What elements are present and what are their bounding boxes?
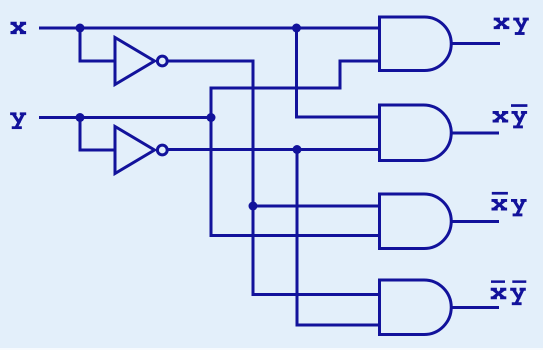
- junction dot on y line at riser: [207, 113, 216, 122]
- wire: x branch to NOT1: [80, 28, 114, 61]
- junction dot on x' line at AND3 branch: [249, 202, 258, 211]
- wire: AND3 output: [451, 220, 499, 223]
- wire: NOT1 output x' down to AND4 input 1: [169, 61, 379, 295]
- inverter NOT1 for x: [115, 38, 155, 85]
- wire: AND1 output: [451, 42, 500, 45]
- junction dot on y line at NOT2 branch: [76, 113, 85, 122]
- AND gate 4 (x' y'): [380, 280, 452, 335]
- wire: y riser up to AND1 input 2 and down to AND3 input 2: [211, 61, 380, 236]
- junction dot on x line at NOT1 branch: [76, 24, 85, 33]
- wire: AND4 output: [451, 306, 499, 309]
- label: input y: [10, 114, 26, 128]
- label: output x ybar: [493, 104, 528, 127]
- wire: NOT2 output y' to AND2 input 2: [169, 148, 380, 151]
- AND gate 3 (x' y): [380, 194, 452, 249]
- label: output xy: [494, 19, 529, 33]
- label: output xbar ybar: [491, 280, 527, 303]
- label: output xbar y: [492, 192, 527, 215]
- wire: x' branch to AND3 input 1: [253, 205, 380, 208]
- wire: y branch to NOT2: [80, 118, 114, 151]
- wire: x input line: [39, 27, 380, 30]
- AND gate 2 (x y'): [380, 105, 452, 161]
- wire: y' branch down to AND4 input 2: [297, 150, 378, 326]
- AND gate 1 (xy): [380, 17, 452, 71]
- label: input x: [11, 23, 27, 32]
- wire: x branch down to AND2 input 1: [297, 28, 380, 117]
- inverter NOT2 for y: [115, 127, 155, 174]
- wire: y input line: [39, 116, 211, 119]
- wire: AND2 output: [451, 132, 499, 135]
- junction dot on y' line at AND4 branch: [293, 145, 302, 154]
- junction dot on x line at AND2 branch: [292, 24, 301, 33]
